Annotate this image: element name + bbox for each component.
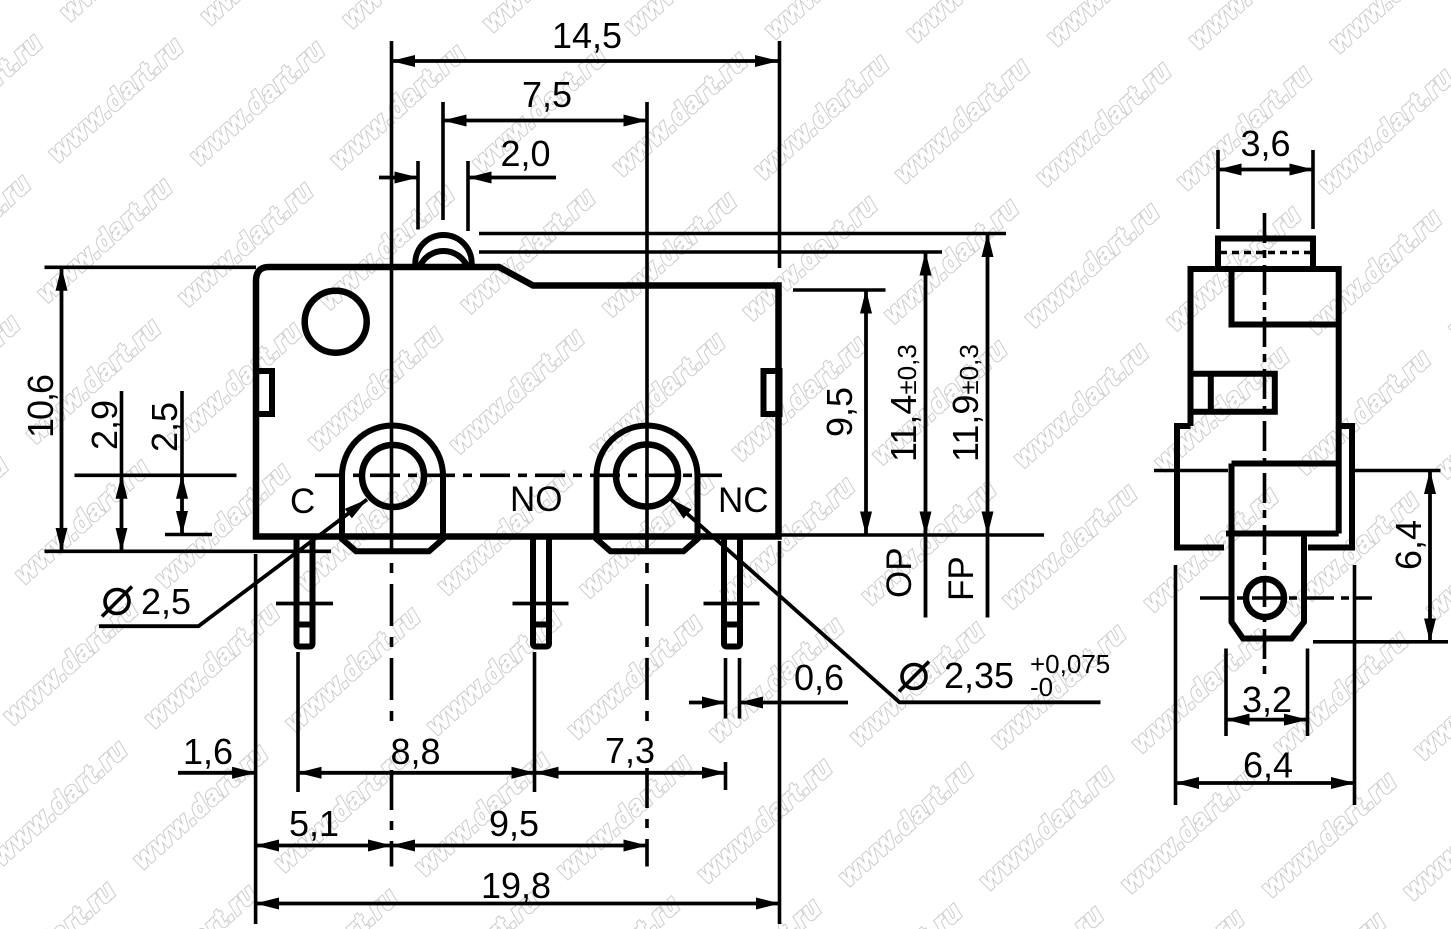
side ref line (1154, 469, 1228, 473)
centerline C vertical (390, 41, 394, 510)
dim 19,8 (256, 902, 780, 906)
extension top edge left (45, 265, 257, 269)
free position line (479, 232, 1006, 236)
left mounting tab (256, 371, 272, 414)
centerline NC vertical (645, 102, 649, 510)
svg-text:9,5: 9,5 (489, 803, 539, 844)
extension button center (441, 102, 445, 220)
svg-text:2,0: 2,0 (500, 133, 550, 174)
dim 9,5 vertical (864, 290, 868, 535)
svg-text:2,5: 2,5 (144, 402, 185, 452)
terminal C arch (342, 425, 443, 551)
extension pin C bottom (296, 652, 300, 792)
side centerline horizontal (1200, 596, 1372, 600)
extension right edge bottom (778, 541, 782, 924)
svg-text:3,2: 3,2 (1242, 679, 1292, 720)
svg-text:0,6: 0,6 (794, 657, 844, 698)
side mid tab (1191, 374, 1275, 412)
side flange right (1308, 426, 1352, 548)
dim 14,5 (392, 59, 779, 63)
svg-text:OP: OP (880, 547, 919, 598)
svg-text:FP: FP (942, 556, 981, 601)
extension pin NO bottom (533, 652, 537, 792)
svg-text:6,4: 6,4 (1243, 745, 1293, 786)
dim 0,6 (689, 701, 726, 705)
pin C cross line (276, 602, 333, 606)
side terminal (1232, 464, 1305, 639)
pin NO cross line (513, 602, 569, 606)
extension pin NC 0,6 lines (724, 658, 728, 719)
side cap (1218, 239, 1313, 270)
dim 11,9 (986, 234, 990, 536)
side extension 6,4 horizontal (1174, 565, 1178, 805)
dim 6,4 horizontal (1176, 781, 1355, 785)
extension hole center left (75, 473, 237, 477)
svg-text:7,3: 7,3 (605, 730, 655, 771)
top-left hole circle (305, 291, 367, 353)
label dia 2,5 (105, 590, 129, 614)
svg-text:14,5: 14,5 (552, 15, 622, 56)
svg-text:NO: NO (510, 480, 563, 519)
svg-text:7,5: 7,5 (522, 74, 572, 115)
svg-text:C: C (290, 482, 315, 521)
dim 7,3 (535, 771, 726, 775)
dim 10,6 (60, 267, 64, 551)
pin NC (724, 539, 740, 647)
svg-text:10,6: 10,6 (20, 374, 61, 438)
side extension 3,2 (1224, 649, 1228, 737)
switch body outline (256, 267, 779, 537)
svg-text:9,5: 9,5 (819, 387, 860, 437)
side inner rect top (1232, 461, 1339, 467)
side cap dashed line (1220, 251, 1311, 255)
dim 3,2 (1226, 718, 1308, 722)
side centerline vertical (1263, 213, 1267, 676)
extension body bottom right (781, 533, 1044, 537)
svg-text:5,1: 5,1 (289, 803, 339, 844)
side body (1191, 269, 1339, 534)
dim 6,4 vertical (1428, 471, 1432, 642)
dim 9,5 bottom (392, 844, 648, 848)
svg-text:19,8: 19,8 (481, 865, 551, 906)
dim 7,5 (443, 119, 647, 123)
extension body bottom short left (165, 533, 212, 537)
extension left edge bottom (254, 554, 258, 924)
svg-text:6,4: 6,4 (1388, 520, 1429, 570)
extension right edge top (778, 41, 782, 268)
terminal NC hole (616, 445, 678, 507)
side body bottom line (1226, 531, 1339, 537)
right mounting tab (764, 371, 780, 414)
plunger button inner arc (420, 251, 468, 267)
side extension 3,6 (1216, 150, 1220, 229)
extension seating line (45, 549, 332, 553)
svg-text:2,5: 2,5 (141, 581, 191, 622)
extension 9,5 top (793, 288, 886, 292)
svg-text:2,35: 2,35 (944, 655, 1014, 696)
dim 8,8 (298, 771, 535, 775)
operating position line (479, 250, 942, 254)
leader dia 2,5 (99, 500, 367, 627)
dim 2,5 (180, 391, 184, 475)
dim 5,1 (256, 844, 392, 848)
side inner step (1232, 269, 1339, 325)
side flange left (1177, 426, 1224, 548)
dim 2,9 (120, 391, 124, 475)
label dia 2,35 (902, 665, 926, 689)
dim 1,6 (178, 771, 256, 775)
centerline holes horizontal (315, 473, 722, 477)
terminal NC arch (597, 425, 698, 551)
svg-text:3,6: 3,6 (1240, 123, 1290, 164)
side terminal hole (1246, 579, 1284, 617)
pin NO (533, 539, 549, 647)
svg-text:1,6: 1,6 (183, 731, 233, 772)
pin NC cross line (704, 602, 760, 606)
dim 3,6 (1218, 168, 1313, 172)
pin C (297, 539, 313, 647)
leader dia 2,35 (670, 499, 1101, 703)
plunger button outer arc (415, 235, 471, 267)
dim 2,0 (379, 176, 418, 180)
terminal C hole (362, 445, 424, 507)
extension button edges (416, 161, 420, 230)
svg-text:NC: NC (718, 481, 769, 520)
svg-text:-0: -0 (1030, 672, 1053, 702)
svg-text:2,9: 2,9 (84, 400, 125, 450)
svg-text:8,8: 8,8 (390, 731, 440, 772)
side extension 6,4 bottom (1313, 640, 1448, 644)
dim 11,4 (924, 252, 928, 535)
